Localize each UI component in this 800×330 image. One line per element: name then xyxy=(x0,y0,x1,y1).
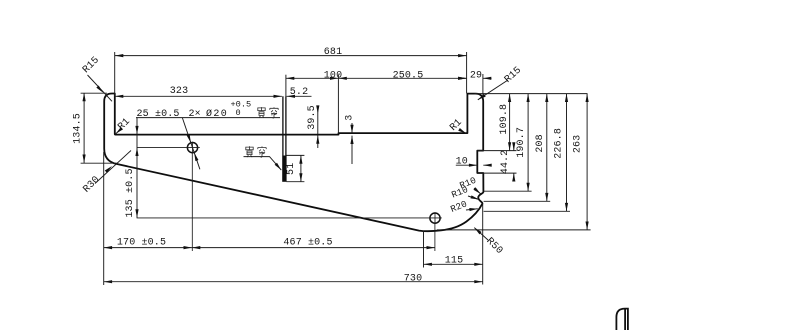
svg-text:467 ±0.5: 467 ±0.5 xyxy=(283,238,332,249)
note line 25 / 2x20 xyxy=(136,117,280,119)
hole 1 leader xyxy=(182,118,200,170)
hole 2 circle xyxy=(430,213,440,223)
svg-text:730: 730 xyxy=(404,273,422,284)
svg-text:3: 3 xyxy=(345,115,356,121)
dim 250.5 xyxy=(338,77,466,79)
hole 2 extension down xyxy=(434,224,436,251)
svg-text:134.5: 134.5 xyxy=(73,113,84,144)
svg-text:+0.5: +0.5 xyxy=(231,100,252,110)
svg-text:10: 10 xyxy=(456,157,468,168)
dim 681 xyxy=(115,52,467,97)
dim 100 xyxy=(286,77,339,79)
dim 226.8 xyxy=(566,94,568,212)
svg-text:681: 681 xyxy=(324,47,342,58)
dim 467 xyxy=(192,247,435,249)
dim 109.8 xyxy=(509,94,511,151)
blade through part (5.2 plate) xyxy=(283,96,286,155)
dim 115 xyxy=(424,231,483,268)
hole 1 crosshair xyxy=(137,142,200,154)
svg-text:250.5: 250.5 xyxy=(393,70,424,81)
svg-text:263: 263 xyxy=(573,135,584,153)
svg-text:39.5: 39.5 xyxy=(307,105,318,130)
extension 250.5 mid xyxy=(337,75,339,134)
dim baseline right xyxy=(475,93,588,95)
dim 730 xyxy=(104,204,483,285)
dim 5.2 xyxy=(287,95,312,97)
dim 3 xyxy=(351,123,353,164)
dim 134.5 xyxy=(81,93,117,163)
dim 51 xyxy=(286,155,304,181)
dim 44.2 xyxy=(513,143,515,181)
svg-text:226.8: 226.8 xyxy=(554,128,565,159)
dim 29 xyxy=(458,77,492,79)
svg-text:323: 323 xyxy=(170,86,188,97)
svg-text:44.2: 44.2 xyxy=(500,150,511,175)
hole 1 circle xyxy=(187,143,197,153)
svg-text:100: 100 xyxy=(324,70,342,81)
svg-text:2×: 2× xyxy=(189,109,201,120)
dim 323 xyxy=(115,95,282,97)
dim 10 xyxy=(456,164,492,166)
svg-text:0: 0 xyxy=(236,108,241,118)
blade upper extension xyxy=(285,75,287,97)
svg-text:170 ±0.5: 170 ±0.5 xyxy=(117,238,166,249)
svg-text:29: 29 xyxy=(470,70,482,81)
svg-text:115: 115 xyxy=(445,256,463,267)
svg-text:109.8: 109.8 xyxy=(499,104,510,135)
svg-text:5.2: 5.2 xyxy=(290,87,308,98)
hole 2 crosshair xyxy=(137,212,442,224)
extension left bottom xyxy=(103,152,105,285)
dim 170 xyxy=(104,247,192,249)
svg-text:25 ±0.5: 25 ±0.5 xyxy=(137,109,180,120)
dim 208 xyxy=(546,94,548,202)
svg-text:208: 208 xyxy=(535,134,546,152)
svg-text:190.7: 190.7 xyxy=(516,127,527,158)
dim 39.5 xyxy=(317,108,319,148)
svg-text:Ø20: Ø20 xyxy=(206,108,228,120)
extension 29 right xyxy=(482,74,484,97)
svg-text:51: 51 xyxy=(286,163,297,175)
dim column 25 / 135 xyxy=(136,118,138,218)
hole 1 extension down xyxy=(191,153,193,251)
right extension lines xyxy=(437,151,591,230)
svg-text:135 ±0.5: 135 ±0.5 xyxy=(125,168,136,217)
dim 263 xyxy=(586,94,588,230)
note through (blade) xyxy=(246,146,253,157)
dim 190.7 xyxy=(527,94,529,192)
part outline xyxy=(104,94,483,232)
side view profile bottom right xyxy=(616,309,628,330)
note text through (guanchuan) xyxy=(258,107,265,118)
